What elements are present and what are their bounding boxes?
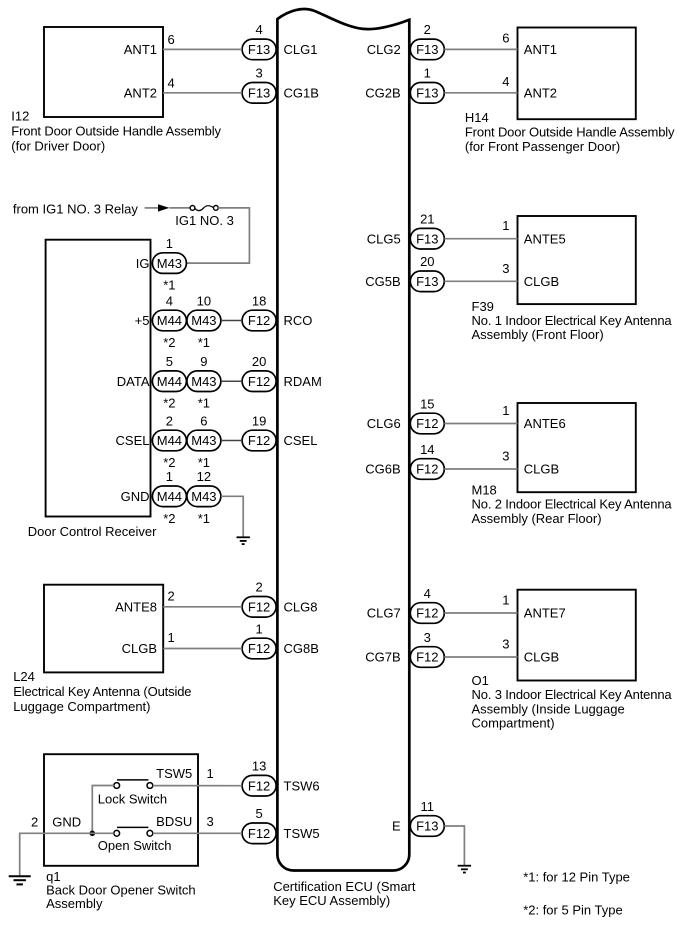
node DATA (Door Control Receiver terminal) — [117, 374, 150, 389]
box L24 Electrical Key Antenna (Outside Luggage Compartment) — [44, 585, 163, 673]
svg-text:CG7B: CG7B — [365, 650, 400, 665]
wire ECU to F39 No. 1 Indoor Electrical Key Antenna Assembly (Front Floor) row 1 — [444, 238, 517, 240]
svg-text:ANT1: ANT1 — [524, 42, 557, 57]
pin number 5 — [255, 806, 262, 821]
svg-text:*2: *2 — [163, 335, 175, 350]
svg-text:CG5B: CG5B — [365, 274, 400, 289]
pin number 20 — [252, 354, 266, 369]
svg-text:5: 5 — [166, 354, 173, 369]
pin number 18 — [252, 293, 266, 308]
label ANT2 (H14) — [524, 86, 557, 101]
connector F12 pin 15 (net CLG6, ECU right side) — [410, 413, 444, 434]
wire F13 pin 2 to H14 ANT1 — [444, 48, 517, 50]
wire L24 ANTE8 to F12 pin 2 — [163, 606, 242, 608]
pin number 4 — [424, 586, 431, 601]
svg-text:Front Door Outside Handle Asse: Front Door Outside Handle Assembly — [465, 125, 675, 140]
svg-text:(for Front Passenger Door): (for Front Passenger Door) — [465, 139, 620, 154]
svg-text:F12: F12 — [416, 606, 438, 621]
node CG5B (ECU terminal label) — [365, 274, 400, 289]
connector F12 pin 14 (net CG6B, ECU right side) — [410, 459, 444, 480]
svg-text:No. 1 Indoor Electrical Key An: No. 1 Indoor Electrical Key Antenna — [472, 313, 673, 328]
connector M43 pin 9 (DATA) — [187, 371, 221, 392]
svg-text:F12: F12 — [248, 374, 270, 389]
pin number 1 (O1 No. 3 Indoor Electrical Key Antenna Assembly (Inside Luggage Compartment) row 1) — [502, 593, 509, 608]
svg-text:ANT1: ANT1 — [124, 42, 157, 57]
svg-text:E: E — [392, 819, 401, 834]
svg-text:6: 6 — [200, 413, 207, 428]
svg-text:F13: F13 — [416, 274, 438, 289]
label ANTE (M18 No. 2 Indoor Electrical Key Antenna Assembly (Rear Floor) row 1) — [524, 416, 566, 431]
connector F13 pin 20 (net CG5B, ECU right side) — [410, 271, 444, 292]
svg-text:CG1B: CG1B — [284, 86, 319, 101]
pin number 1 (L24 CLGB) — [168, 630, 175, 645]
svg-text:Door Control Receiver: Door Control Receiver — [28, 524, 157, 539]
pin number 4 — [166, 293, 173, 308]
svg-text:3: 3 — [502, 449, 509, 464]
label *1 (for 12 Pin Type) — [163, 278, 175, 293]
svg-text:2: 2 — [168, 588, 175, 603]
pin number 6 — [200, 413, 207, 428]
label CLGB (M18 No. 2 Indoor Electrical Key Antenna Assembly (Rear Floor) row 2) — [524, 462, 559, 477]
wire lock switch to q1 TSW5 pin and F12 pin 13 — [153, 785, 242, 787]
svg-text:4: 4 — [168, 76, 175, 91]
svg-text:F12: F12 — [248, 600, 270, 615]
junction (q1 common node) — [90, 831, 96, 837]
svg-text:M43: M43 — [191, 374, 216, 389]
box I12 Front Door Outside Handle Assembly (for Driver Door) — [44, 27, 163, 117]
node CG8B (ECU terminal label) — [284, 641, 319, 656]
svg-text:11: 11 — [421, 799, 435, 814]
svg-text:I12: I12 — [11, 109, 29, 124]
svg-text:F13: F13 — [248, 42, 270, 57]
ground (ECU E terminal) — [458, 866, 471, 873]
node CLG2 (ECU terminal label) — [367, 42, 401, 57]
connector F13 pin 21 (net CLG5, ECU right side) — [410, 228, 444, 249]
connector F13 pin 2 (net CLG2, ECU right side) — [410, 39, 444, 60]
pin number 2 (L24 ANTE8) — [168, 588, 175, 603]
svg-text:12: 12 — [197, 469, 211, 484]
wire F13 pin 1 to H14 ANT2 — [444, 92, 517, 94]
wire F13 pin 11 (E) to ground — [444, 826, 464, 865]
svg-text:4: 4 — [502, 74, 509, 89]
wire open switch common to GND pin — [44, 832, 114, 834]
svg-text:GND: GND — [52, 815, 81, 830]
svg-text:H14: H14 — [465, 110, 489, 125]
svg-text:6: 6 — [502, 30, 509, 45]
svg-text:6: 6 — [168, 32, 175, 47]
svg-text:CG2B: CG2B — [365, 86, 400, 101]
node CSEL (ECU terminal label) — [284, 433, 318, 448]
svg-text:*1: *1 — [198, 335, 210, 350]
svg-text:F12: F12 — [416, 462, 438, 477]
label: H14 caption — [465, 110, 675, 154]
svg-text:1: 1 — [207, 766, 214, 781]
wire I12 ANT1 to F13 pin 4 — [163, 48, 242, 50]
svg-text:from IG1 NO. 3 Relay: from IG1 NO. 3 Relay — [13, 202, 138, 217]
label ANT1 (H14) — [524, 42, 557, 57]
svg-text:CLG8: CLG8 — [284, 600, 318, 615]
svg-text:CLG7: CLG7 — [367, 606, 401, 621]
label: O1 No. 3 Indoor Electrical Key Antenna Assembly (Inside Luggage Compartment) caption — [472, 673, 673, 731]
svg-text:*2: *2 — [163, 455, 175, 470]
svg-text:CLG6: CLG6 — [367, 416, 401, 431]
pin number 19 — [252, 413, 266, 428]
wire ECU to M18 No. 2 Indoor Electrical Key Antenna Assembly (Rear Floor) row 2 — [444, 468, 517, 470]
pin number 3 (O1 No. 3 Indoor Electrical Key Antenna Assembly (Inside Luggage Compartment) row 2) — [502, 637, 509, 652]
label ANT1 (I12) — [124, 42, 157, 57]
pin number 15 — [420, 396, 434, 411]
pin number 4 (I12 ANT2) — [168, 76, 175, 91]
connector F12 pin 5 (net TSW5, ECU left side) — [242, 823, 276, 844]
node RDAM (ECU terminal label) — [284, 374, 322, 389]
connector F12 pin 18 (net RCO, ECU left side) — [242, 310, 276, 331]
pin number 5 — [166, 354, 173, 369]
svg-text:Open Switch: Open Switch — [98, 838, 172, 853]
box M18 No. 2 Indoor Electrical Key Antenna Assembly (Rear Floor) — [518, 403, 636, 492]
svg-text:Assembly (Rear Floor): Assembly (Rear Floor) — [472, 511, 602, 526]
svg-text:TSW6: TSW6 — [284, 778, 320, 793]
svg-text:No. 3 Indoor Electrical Key An: No. 3 Indoor Electrical Key Antenna — [472, 687, 673, 702]
svg-text:20: 20 — [252, 354, 266, 369]
label CLGB (F39 No. 1 Indoor Electrical Key Antenna Assembly (Front Floor) row 2) — [524, 274, 559, 289]
svg-text:F13: F13 — [416, 231, 438, 246]
svg-text:19: 19 — [252, 413, 266, 428]
svg-text:5: 5 — [255, 806, 262, 821]
label: Open Switch — [98, 838, 172, 853]
wire fuse to M43 pin 1 (via corner) — [186, 208, 249, 263]
svg-text:2: 2 — [31, 815, 38, 830]
svg-text:*1: *1 — [198, 396, 210, 411]
svg-text:BDSU: BDSU — [156, 814, 192, 829]
svg-text:Luggage Compartment): Luggage Compartment) — [13, 699, 150, 714]
node CG6B (ECU terminal label) — [365, 462, 400, 477]
node CG2B (ECU terminal label) — [365, 86, 400, 101]
svg-text:F39: F39 — [472, 299, 494, 314]
svg-text:*2: *2 — [163, 396, 175, 411]
label: IG1 NO. 3 (fuse name) — [175, 213, 234, 228]
connector M44 pin 2 (CSEL) — [152, 430, 186, 451]
svg-text:15: 15 — [420, 396, 434, 411]
svg-text:Compartment): Compartment) — [472, 716, 555, 731]
wire M43 to F12 (+5 row) — [221, 320, 242, 322]
svg-text:*1: for 12 Pin Type: *1: for 12 Pin Type — [523, 870, 630, 885]
node CLG5 (ECU terminal label) — [367, 231, 401, 246]
svg-text:CLGB: CLGB — [524, 462, 559, 477]
svg-text:14: 14 — [420, 442, 434, 457]
wire L24 CLGB to F12 pin 1 — [163, 648, 242, 650]
svg-text:TSW5: TSW5 — [284, 826, 320, 841]
svg-text:M43: M43 — [191, 489, 216, 504]
box q1 Back Door Opener Switch Assembly — [44, 754, 198, 866]
ground (q1 body ground) — [9, 876, 31, 884]
svg-text:TSW5: TSW5 — [156, 766, 192, 781]
label *2 (for 5 Pin Type) — [163, 396, 175, 411]
svg-text:CLG1: CLG1 — [284, 42, 318, 57]
node CLG6 (ECU terminal label) — [367, 416, 401, 431]
pin number 20 — [420, 254, 434, 269]
IC U1 Certification ECU (Smart Key ECU Assembly) body — [277, 9, 409, 870]
svg-text:F12: F12 — [248, 826, 270, 841]
connector M43 pin 1 (IG) — [152, 253, 186, 274]
pin number 6 (I12 ANT1) — [168, 32, 175, 47]
svg-text:ANTE5: ANTE5 — [524, 231, 566, 246]
wire ECU to M18 No. 2 Indoor Electrical Key Antenna Assembly (Rear Floor) row 1 — [444, 423, 517, 425]
svg-text:Certification ECU (Smart: Certification ECU (Smart — [273, 879, 416, 894]
connector M44 pin 1 (GND) — [152, 486, 186, 507]
arrow (signal direction) — [158, 204, 169, 211]
pin number 3 — [424, 630, 431, 645]
wire M43 to F12 (DATA row) — [221, 380, 242, 382]
pin number 12 — [197, 469, 211, 484]
label BDSU (q1 terminal) — [156, 814, 192, 829]
svg-text:4: 4 — [255, 22, 262, 37]
svg-text:CLGB: CLGB — [524, 650, 559, 665]
svg-text:1: 1 — [502, 403, 509, 418]
node CLG8 (ECU terminal label) — [284, 600, 318, 615]
connector F12 pin 20 (net RDAM, ECU left side) — [242, 371, 276, 392]
pin number 1 (q1 TSW5) — [207, 766, 214, 781]
svg-text:CSEL: CSEL — [284, 433, 318, 448]
pin number 1 (F39 No. 1 Indoor Electrical Key Antenna Assembly (Front Floor) row 1) — [502, 218, 509, 233]
connector M43 pin 12 (GND) — [187, 486, 221, 507]
label ANTE (O1 No. 3 Indoor Electrical Key Antenna Assembly (Inside Luggage Compartment) row 1) — [524, 606, 566, 621]
label CLGB (O1 No. 3 Indoor Electrical Key Antenna Assembly (Inside Luggage Compartment) row 2) — [524, 650, 559, 665]
pin number 10 — [197, 293, 211, 308]
svg-text:4: 4 — [166, 293, 173, 308]
label *1 (for 12 Pin Type) — [198, 335, 210, 350]
node TSW6 (ECU terminal label) — [284, 778, 320, 793]
svg-text:10: 10 — [197, 293, 211, 308]
svg-text:3: 3 — [424, 630, 431, 645]
node CSEL (Door Control Receiver terminal) — [116, 433, 150, 448]
svg-text:DATA: DATA — [117, 374, 150, 389]
label: Certification ECU (Smart Key ECU Assembly) — [273, 879, 416, 908]
connector F12 pin 4 (net CLG7, ECU right side) — [410, 603, 444, 624]
svg-text:20: 20 — [420, 254, 434, 269]
wire I12 ANT2 to F13 pin 3 — [163, 92, 242, 94]
node +5 (Door Control Receiver terminal) — [135, 313, 150, 328]
connector F13 pin 1 (net CG2B, ECU right side) — [410, 83, 444, 104]
svg-text:1: 1 — [168, 630, 175, 645]
svg-text:F13: F13 — [248, 86, 270, 101]
wire open switch to q1 BDSU pin and F12 pin 5 — [153, 832, 242, 834]
svg-text:CG8B: CG8B — [284, 641, 319, 656]
svg-text:F12: F12 — [416, 650, 438, 665]
svg-text:(for Driver Door): (for Driver Door) — [11, 139, 105, 154]
svg-text:21: 21 — [420, 212, 434, 227]
pin number 3 (M18 No. 2 Indoor Electrical Key Antenna Assembly (Rear Floor) row 2) — [502, 449, 509, 464]
label: from IG1 NO. 3 Relay — [13, 202, 138, 217]
pin number 1 — [166, 469, 173, 484]
pin number 2 — [166, 413, 173, 428]
node CLG7 (ECU terminal label) — [367, 606, 401, 621]
box O1 No. 3 Indoor Electrical Key Antenna Assembly (Inside Luggage Compartment) — [518, 590, 636, 681]
svg-text:3: 3 — [207, 814, 214, 829]
svg-text:13: 13 — [252, 759, 266, 774]
connector M43 pin 6 (CSEL) — [187, 430, 221, 451]
svg-text:RDAM: RDAM — [284, 374, 322, 389]
wire ECU to O1 No. 3 Indoor Electrical Key Antenna Assembly (Inside Luggage Compartment) row 2 — [444, 656, 517, 658]
label *1 (for 12 Pin Type) — [198, 396, 210, 411]
pin number 3 (q1 BDSU) — [207, 814, 214, 829]
pin number 21 — [420, 212, 434, 227]
pin number 2 (q1 GND) — [31, 815, 38, 830]
pin number 2 — [424, 22, 431, 37]
node TSW5 (ECU terminal label) — [284, 826, 320, 841]
svg-text:*1: *1 — [198, 511, 210, 526]
svg-text:F12: F12 — [416, 416, 438, 431]
svg-text:*2: *2 — [163, 511, 175, 526]
svg-text:L24: L24 — [13, 669, 35, 684]
svg-text:*2: for 5 Pin Type: *2: for 5 Pin Type — [523, 902, 623, 917]
connector M43 pin 10 (+5) — [187, 310, 221, 331]
svg-text:F13: F13 — [416, 819, 438, 834]
pin number 2 — [255, 580, 262, 595]
svg-text:ANTE8: ANTE8 — [115, 600, 157, 615]
pin number 3 — [255, 66, 262, 81]
label: note *1 for 12 Pin Type — [523, 870, 630, 885]
switch SW1 Lock Switch — [114, 780, 153, 788]
label: q1 caption — [46, 869, 196, 911]
svg-text:CSEL: CSEL — [116, 433, 150, 448]
node CLG1 (ECU terminal label) — [284, 42, 318, 57]
label CLGB (L24) — [122, 641, 157, 656]
label: I12 caption — [11, 109, 221, 154]
svg-text:M43: M43 — [157, 256, 182, 271]
connector M44 pin 5 (DATA) — [152, 371, 186, 392]
svg-text:M43: M43 — [191, 433, 216, 448]
svg-text:1: 1 — [166, 469, 173, 484]
label: F39 No. 1 Indoor Electrical Key Antenna Assembly (Front Floor) caption — [472, 299, 673, 342]
box H14 Front Door Outside Handle Assembly (for Front Passenger Door) — [518, 28, 636, 120]
label *1 (for 12 Pin Type) — [198, 455, 210, 470]
svg-text:F13: F13 — [416, 42, 438, 57]
pin number 1 — [166, 236, 173, 251]
label TSW5 (q1 terminal) — [156, 766, 192, 781]
pin number 4 — [255, 22, 262, 37]
pin number 1 — [255, 621, 262, 636]
svg-text:2: 2 — [166, 413, 173, 428]
node CG7B (ECU terminal label) — [365, 650, 400, 665]
svg-text:18: 18 — [252, 293, 266, 308]
svg-text:F12: F12 — [248, 313, 270, 328]
svg-text:CLGB: CLGB — [524, 274, 559, 289]
svg-text:M44: M44 — [157, 433, 182, 448]
label *1 (for 12 Pin Type) — [198, 511, 210, 526]
svg-text:1: 1 — [255, 621, 262, 636]
svg-text:Key ECU Assembly): Key ECU Assembly) — [273, 893, 390, 908]
svg-text:4: 4 — [424, 586, 431, 601]
svg-text:ANTE6: ANTE6 — [524, 416, 566, 431]
node IG (Door Control Receiver terminal) — [136, 256, 150, 271]
pin number 4 (H14 ANT2) — [502, 74, 509, 89]
svg-text:2: 2 — [424, 22, 431, 37]
svg-text:F13: F13 — [416, 86, 438, 101]
svg-text:F12: F12 — [248, 433, 270, 448]
svg-text:F12: F12 — [248, 641, 270, 656]
svg-text:3: 3 — [502, 261, 509, 276]
wire ECU to O1 No. 3 Indoor Electrical Key Antenna Assembly (Inside Luggage Compartment) row 1 — [444, 612, 517, 614]
connector F12 pin 2 (net CLG8, ECU left side) — [242, 597, 276, 618]
svg-text:1: 1 — [502, 218, 509, 233]
pin number 14 — [420, 442, 434, 457]
wire lock switch to common (internal) — [92, 786, 114, 834]
svg-text:O1: O1 — [472, 673, 489, 688]
svg-text:ANT2: ANT2 — [524, 86, 557, 101]
wire q1 GND pin to ground — [20, 833, 44, 875]
fuse IG1 NO. 3 — [190, 206, 218, 211]
node E (ECU terminal label) — [392, 819, 401, 834]
switch SW2 Open Switch — [114, 827, 153, 836]
svg-text:M43: M43 — [191, 313, 216, 328]
label *2 (for 5 Pin Type) — [163, 335, 175, 350]
svg-text:*1: *1 — [198, 455, 210, 470]
svg-text:Assembly: Assembly — [46, 896, 103, 911]
svg-text:M44: M44 — [157, 313, 182, 328]
ground (Door Control Receiver GND) — [237, 537, 250, 544]
label *2 (for 5 Pin Type) — [163, 455, 175, 470]
wire M43 to F12 (CSEL row) — [221, 440, 242, 442]
pin number 1 — [424, 66, 431, 81]
svg-text:1: 1 — [502, 593, 509, 608]
box F39 No. 1 Indoor Electrical Key Antenna Assembly (Front Floor) — [518, 216, 636, 304]
wire arrow to fuse — [169, 207, 190, 209]
wire ECU to F39 No. 1 Indoor Electrical Key Antenna Assembly (Front Floor) row 2 — [444, 280, 517, 282]
svg-text:F12: F12 — [248, 778, 270, 793]
svg-text:Electrical Key Antenna (Outsid: Electrical Key Antenna (Outside — [13, 684, 191, 699]
svg-text:CLGB: CLGB — [122, 641, 157, 656]
label ANTE (F39 No. 1 Indoor Electrical Key Antenna Assembly (Front Floor) row 1) — [524, 231, 566, 246]
svg-text:GND: GND — [121, 489, 150, 504]
svg-text:Lock Switch: Lock Switch — [98, 792, 167, 807]
node RCO (ECU terminal label) — [284, 313, 313, 328]
svg-text:2: 2 — [255, 580, 262, 595]
svg-text:Assembly (Front Floor): Assembly (Front Floor) — [472, 327, 604, 342]
pin number 9 — [200, 354, 207, 369]
svg-text:M44: M44 — [157, 374, 182, 389]
svg-text:M18: M18 — [472, 483, 497, 498]
svg-text:CLG2: CLG2 — [367, 42, 401, 57]
wire from relay (lead-in) — [145, 207, 159, 209]
svg-text:+5: +5 — [135, 313, 150, 328]
pin number 13 — [252, 759, 266, 774]
svg-text:*1: *1 — [163, 278, 175, 293]
pin number 6 (H14 ANT1) — [502, 30, 509, 45]
label: Door Control Receiver caption — [28, 524, 157, 539]
svg-text:RCO: RCO — [284, 313, 313, 328]
svg-text:ANTE7: ANTE7 — [524, 606, 566, 621]
label: L24 caption — [13, 669, 191, 714]
svg-text:Front Door Outside Handle Asse: Front Door Outside Handle Assembly — [11, 124, 221, 139]
node CG1B (ECU terminal label) — [284, 86, 319, 101]
wire M43 pin 12 to ground (GND row) — [221, 496, 243, 536]
svg-text:CLG5: CLG5 — [367, 231, 401, 246]
label: M18 No. 2 Indoor Electrical Key Antenna Assembly (Rear Floor) caption — [472, 483, 673, 526]
svg-text:Assembly (Inside Luggage: Assembly (Inside Luggage — [472, 701, 625, 716]
svg-text:IG1 NO. 3: IG1 NO. 3 — [175, 213, 234, 228]
label *2 (for 5 Pin Type) — [163, 511, 175, 526]
connector F12 pin 13 (net TSW6, ECU left side) — [242, 775, 276, 796]
pin number 1 (M18 No. 2 Indoor Electrical Key Antenna Assembly (Rear Floor) row 1) — [502, 403, 509, 418]
svg-text:CG6B: CG6B — [365, 462, 400, 477]
connector F13 pin 4 (net CLG1, ECU left side) — [242, 39, 276, 60]
svg-text:ANT2: ANT2 — [124, 86, 157, 101]
connector F13 pin 11 (net E, ECU right side) — [410, 816, 444, 837]
svg-text:IG: IG — [136, 256, 150, 271]
svg-text:3: 3 — [255, 66, 262, 81]
label: Lock Switch — [98, 792, 167, 807]
svg-text:1: 1 — [166, 236, 173, 251]
